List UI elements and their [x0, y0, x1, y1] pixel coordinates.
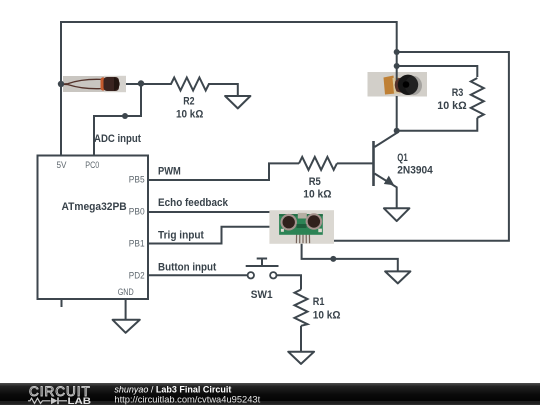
svg-text:LAB: LAB	[68, 396, 92, 405]
wire below buzzer to collector node	[396, 96, 398, 131]
logo zigzag diode	[28, 397, 67, 404]
resistor R1	[295, 290, 308, 326]
svg-text:10 kΩ: 10 kΩ	[176, 108, 203, 120]
buzzer photo	[368, 72, 428, 97]
wire top rail	[61, 21, 397, 23]
svg-text:5V: 5V	[57, 160, 68, 171]
photoresistor photo	[63, 76, 126, 92]
footer bar	[0, 383, 540, 405]
svg-text:PB1: PB1	[129, 238, 145, 249]
ground after R2	[225, 96, 250, 108]
svg-text:PWM: PWM	[158, 166, 181, 178]
node junction top of right rail	[394, 49, 400, 55]
svg-text:R1: R1	[313, 296, 325, 308]
svg-text:Button input: Button input	[158, 261, 217, 273]
wire R2 to ground stem	[237, 83, 239, 96]
svg-text:R5: R5	[309, 176, 321, 188]
ground below chip	[113, 320, 140, 333]
svg-text:SW1: SW1	[251, 289, 273, 301]
svg-text:PC0: PC0	[85, 160, 99, 171]
svg-text:Trig input: Trig input	[158, 230, 204, 242]
node junction at collector	[394, 128, 400, 134]
wire SW1 to R1	[277, 275, 302, 289]
wire left rail to 5V pin	[60, 21, 62, 155]
wire R1 to ground	[300, 326, 302, 352]
wire unconnected stub below chip	[61, 299, 63, 307]
wire Button input net PD2 to SW1	[148, 274, 248, 276]
svg-text:PB5: PB5	[129, 174, 145, 185]
transistor Q1	[374, 131, 397, 208]
svg-text:PB0: PB0	[129, 206, 145, 217]
node junction at photoresistor left	[58, 81, 64, 87]
wire ADC net from node down-left to PC0	[94, 84, 141, 155]
wire R3 bottom branch to collector node	[397, 118, 478, 131]
svg-text:10 kΩ: 10 kΩ	[437, 100, 467, 112]
wire photoresistor leads	[61, 83, 66, 85]
svg-text:R3: R3	[452, 87, 464, 99]
node junction on sensor ground wire	[330, 256, 336, 262]
wire right vertical from top rail	[396, 21, 398, 52]
wire R5 to Q1 base	[337, 162, 374, 164]
wire R3 top branch	[397, 66, 478, 77]
wire Trig input net PB1 to sensor	[148, 227, 275, 244]
svg-text:Echo feedback: Echo feedback	[158, 197, 229, 209]
wire buzzer vertical through photo	[396, 52, 398, 80]
ground below Q1 emitter	[384, 208, 410, 221]
node junction at R3 top branch	[394, 63, 400, 69]
wire GND pin down	[125, 299, 127, 320]
wire sensor bottom to ground net	[302, 240, 398, 272]
switch SW1	[246, 259, 279, 279]
ground below sensor	[385, 271, 410, 283]
svg-text:Q1: Q1	[397, 152, 407, 164]
chip U1 ATmega32PB box	[38, 156, 149, 300]
svg-text:R2: R2	[183, 95, 194, 107]
svg-text:10 kΩ: 10 kΩ	[313, 309, 341, 321]
svg-text:PD2: PD2	[129, 270, 145, 281]
ultrasonic sensor photo	[269, 210, 334, 244]
ground below R1	[288, 352, 314, 364]
node junction right of photoresistor	[138, 80, 144, 86]
svg-text:http://circuitlab.com/cvtwa4u9: http://circuitlab.com/cvtwa4u95243t	[114, 394, 260, 405]
svg-text:ATmega32PB: ATmega32PB	[62, 201, 127, 213]
resistor R5	[299, 157, 337, 170]
svg-text:GND: GND	[118, 287, 134, 298]
resistor R2	[141, 78, 238, 91]
svg-text:ADC input: ADC input	[94, 133, 141, 145]
wire Echo feedback net PB0 to sensor	[148, 211, 275, 213]
svg-text:2N3904: 2N3904	[397, 165, 433, 177]
resistor R3	[471, 78, 484, 118]
wire PWM net PB5 to R5	[148, 163, 299, 180]
node junction on ADC wire	[122, 113, 128, 119]
svg-text:10 kΩ: 10 kΩ	[303, 189, 331, 201]
wire sensor right to right rail up to top node	[330, 52, 509, 241]
